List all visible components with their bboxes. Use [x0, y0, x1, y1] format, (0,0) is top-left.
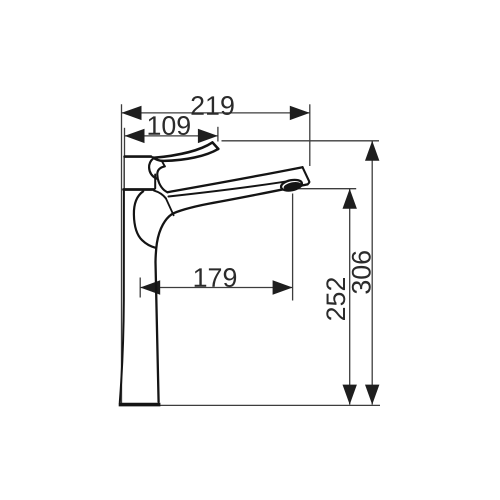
- svg-text:179: 179: [193, 263, 238, 293]
- svg-text:109: 109: [146, 111, 191, 141]
- svg-text:306: 306: [347, 250, 377, 295]
- svg-text:219: 219: [190, 91, 235, 121]
